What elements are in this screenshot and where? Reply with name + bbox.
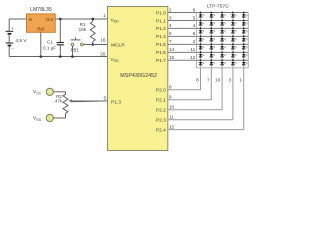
- LED row1 col5: [242, 12, 247, 17]
- wire VCC to R2 top: [53, 91, 65, 93]
- wire P1.6 to matrix row 11: [168, 51, 248, 53]
- LED row1 col2: [210, 12, 215, 17]
- svg-text:16: 16: [100, 38, 106, 43]
- wire P2.1 horizontal: [168, 99, 212, 101]
- svg-text:P2.2: P2.2: [156, 108, 166, 114]
- svg-text:9: 9: [169, 95, 172, 100]
- node VDD at R1: [92, 18, 95, 21]
- svg-text:LM78L35: LM78L35: [30, 7, 52, 13]
- wire P2.2 riser to matrix column: [221, 68, 223, 110]
- LED row5 col4: [231, 44, 236, 49]
- LED row5 col2: [210, 44, 215, 49]
- wire ground rail battery to MCU VSS: [9, 56, 107, 58]
- svg-text:12: 12: [190, 55, 196, 60]
- wire battery positive to regulator In: [9, 18, 26, 20]
- pushbutton PB1 right contact: [80, 43, 83, 46]
- LED row5 col5: [242, 44, 247, 49]
- svg-text:In: In: [29, 17, 33, 22]
- wire P2.3 horizontal: [168, 119, 233, 121]
- display border right: [247, 13, 249, 68]
- svg-text:11: 11: [190, 47, 195, 52]
- svg-text:4: 4: [193, 23, 196, 28]
- svg-text:1: 1: [239, 78, 242, 83]
- LED row7 col3: [220, 59, 225, 64]
- LED row3 col4: [231, 28, 236, 33]
- LED row5 col3: [220, 44, 225, 49]
- battery BT1 cell2 short plate: [8, 45, 12, 47]
- svg-text:4: 4: [169, 23, 172, 28]
- display bottom rail: [196, 67, 248, 69]
- LED row4 col4: [231, 36, 236, 41]
- LED row6 col1: [199, 52, 204, 57]
- node ground at PB1: [71, 55, 74, 58]
- battery BT1 cell2 long plate: [6, 42, 14, 44]
- svg-text:PB1: PB1: [71, 48, 80, 53]
- potentiometer R2 zigzag: [63, 94, 68, 113]
- display column line 8: [200, 13, 202, 68]
- wire R2 bottom bend: [65, 114, 67, 119]
- wire P2.3 riser to matrix column: [232, 68, 234, 120]
- pushbutton PB1 actuator stem: [75, 38, 77, 40]
- terminal VSS: [46, 114, 53, 121]
- svg-text:10: 10: [169, 105, 175, 110]
- svg-text:2: 2: [169, 7, 172, 12]
- svg-text:Out: Out: [46, 17, 54, 22]
- LED row4 col5: [242, 36, 247, 41]
- wire battery negative lead: [8, 46, 10, 57]
- resistor R1 zigzag: [90, 22, 95, 42]
- wire P2.0 riser to matrix column: [200, 68, 202, 90]
- LED row6 col4: [231, 52, 236, 57]
- LED row3 col5: [242, 28, 247, 33]
- wire P2.2 horizontal: [168, 109, 222, 111]
- wire C1 top lead: [59, 19, 61, 42]
- display column line 1: [243, 13, 245, 68]
- wire PB1 to ground: [72, 46, 74, 57]
- svg-text:3: 3: [169, 15, 172, 20]
- svg-text:P1.1: P1.1: [156, 18, 166, 24]
- svg-text:P1.5: P1.5: [156, 42, 166, 48]
- svg-text:P1.3: P1.3: [111, 100, 121, 106]
- svg-text:10k: 10k: [79, 27, 87, 32]
- voltage regulator U1 LM78L35 body: [27, 14, 56, 32]
- svg-text:P1.4: P1.4: [156, 34, 166, 40]
- svg-text:P2.1: P2.1: [156, 98, 166, 104]
- LED row6 col3: [220, 52, 225, 57]
- wire C1 bottom lead: [59, 45, 61, 57]
- svg-text:10: 10: [215, 78, 221, 83]
- pushbutton PB1 actuator bar: [71, 39, 81, 41]
- LED row2 col3: [220, 20, 225, 25]
- svg-text:4.5 V: 4.5 V: [15, 38, 27, 44]
- svg-text:P1.7: P1.7: [156, 58, 166, 64]
- svg-text:3: 3: [229, 78, 232, 83]
- wire P1.7 to matrix row 12: [168, 59, 248, 61]
- LED row4 col1: [199, 36, 204, 41]
- LED row1 col1: [199, 12, 204, 17]
- svg-text:C1: C1: [47, 40, 53, 45]
- wire P1.1 to matrix row 5: [168, 20, 248, 22]
- LED row1 col3: [220, 12, 225, 17]
- svg-text:8: 8: [169, 85, 172, 90]
- node VDD at C1: [59, 18, 62, 21]
- capacitor C1 bottom plate: [57, 44, 64, 46]
- LED row2 col5: [242, 20, 247, 25]
- wire P1.0 to matrix row 6: [168, 12, 248, 14]
- svg-text:12: 12: [169, 124, 175, 129]
- microcontroller U2 MSP430G2452 body: [108, 7, 168, 151]
- wire P1.5 to matrix row 2: [168, 43, 248, 45]
- battery BT1 cell1 long plate: [6, 30, 14, 32]
- LED row6 col2: [210, 52, 215, 57]
- LED row4 col3: [220, 36, 225, 41]
- svg-text:−: −: [11, 47, 14, 52]
- svg-text:P2.0: P2.0: [156, 88, 166, 94]
- display border left: [195, 13, 197, 68]
- display column line 7: [210, 13, 212, 68]
- svg-text:7: 7: [207, 78, 210, 83]
- capacitor C1 top plate: [57, 42, 64, 44]
- svg-text:8: 8: [196, 78, 199, 83]
- LED row2 col2: [210, 20, 215, 25]
- LED row4 col2: [210, 36, 215, 41]
- svg-text:+: +: [11, 26, 14, 31]
- svg-text:11: 11: [169, 115, 174, 120]
- svg-text:15: 15: [169, 55, 175, 60]
- svg-text:P2.4: P2.4: [156, 127, 166, 133]
- LED row3 col2: [210, 28, 215, 33]
- LED row7 col2: [210, 59, 215, 64]
- svg-text:0.1 µF: 0.1 µF: [43, 46, 56, 51]
- svg-text:1: 1: [103, 13, 106, 18]
- wire R1 bottom stub: [92, 42, 94, 45]
- LED row2 col4: [231, 20, 236, 25]
- wire R2 bottom to VSS: [53, 117, 65, 119]
- display column line 10: [221, 13, 223, 68]
- wire P1.4 to matrix row 9: [168, 35, 248, 37]
- svg-text:MSP430G2452: MSP430G2452: [120, 73, 157, 79]
- wire regulator Ref to ground: [40, 32, 42, 56]
- svg-text:2: 2: [193, 39, 196, 44]
- svg-text:P1.6: P1.6: [156, 50, 166, 56]
- pushbutton PB1 left contact: [71, 43, 74, 46]
- svg-text:P1.0: P1.0: [156, 10, 166, 16]
- svg-text:6: 6: [193, 7, 196, 12]
- svg-text:5: 5: [193, 15, 196, 20]
- terminal VCC: [46, 88, 53, 95]
- wire P2.1 riser to matrix column: [210, 68, 212, 100]
- svg-text:14: 14: [169, 47, 175, 52]
- wire R2 top bend: [65, 92, 67, 95]
- node ground at C1: [59, 55, 62, 58]
- wire battery top lead: [8, 19, 10, 31]
- LED row7 col4: [231, 59, 236, 64]
- wire MCLR PB1 to MCU pin16: [83, 44, 107, 46]
- LED row7 col1: [199, 59, 204, 64]
- wire VDD rail regulator Out to MCU pin1: [55, 18, 107, 20]
- svg-text:Ref: Ref: [37, 26, 45, 31]
- svg-text:MCLR: MCLR: [111, 42, 125, 48]
- LED row5 col1: [199, 44, 204, 49]
- LED row2 col1: [199, 20, 204, 25]
- LED row7 col5: [242, 59, 247, 64]
- node ground at regulator Ref: [40, 55, 43, 58]
- wire P1.2 to matrix row 4: [168, 27, 248, 29]
- LED row1 col4: [231, 12, 236, 17]
- wire P2.4 horizontal: [168, 129, 244, 131]
- svg-text:9: 9: [193, 31, 196, 36]
- battery BT1 cell1 short plate: [8, 33, 12, 35]
- svg-text:7: 7: [169, 39, 172, 44]
- svg-text:LTP-757G: LTP-757G: [207, 4, 229, 10]
- wire battery mid: [8, 34, 10, 43]
- svg-text:6: 6: [169, 31, 172, 36]
- svg-text:P1.2: P1.2: [156, 26, 166, 32]
- LED row6 col5: [242, 52, 247, 57]
- LED row3 col3: [220, 28, 225, 33]
- svg-text:20: 20: [100, 52, 106, 57]
- wire P2.4 riser to matrix column: [243, 68, 245, 130]
- node MCLR at R1: [92, 43, 95, 46]
- svg-text:47k: 47k: [55, 99, 63, 104]
- wire P2.0 horizontal: [168, 89, 201, 91]
- display column line 3: [232, 13, 234, 68]
- svg-text:P2.3: P2.3: [156, 118, 166, 124]
- R2 wiper arrow: [69, 100, 108, 102]
- wire R1 top stub: [92, 19, 94, 22]
- LED row3 col1: [199, 28, 204, 33]
- svg-text:5: 5: [103, 96, 106, 101]
